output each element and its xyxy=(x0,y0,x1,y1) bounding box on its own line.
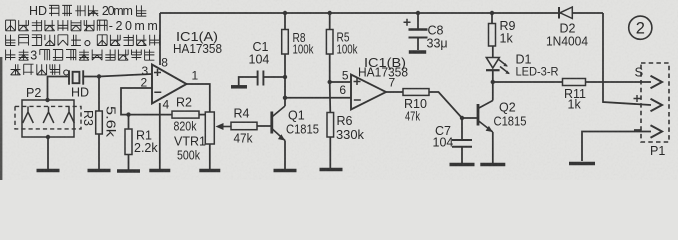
wire: pin 4 to ground xyxy=(159,103,161,169)
wire: base node to Q2 xyxy=(462,117,478,119)
resistor R6 330k xyxy=(327,82,365,168)
node: collector/pin6 junction xyxy=(283,96,287,100)
ground at Q1 emitter xyxy=(274,169,297,173)
capacitor C8 33u electrolytic xyxy=(404,13,448,51)
minus label xyxy=(634,129,641,131)
resistor R8 100k xyxy=(282,13,314,57)
node: feedback node xyxy=(126,112,130,116)
ground at Q2 emitter xyxy=(480,163,505,167)
wire: rail drop to P1 plus pin xyxy=(603,13,651,105)
wire: Q1 emitter to ground xyxy=(284,141,286,170)
wire: minus pin to ground xyxy=(582,132,651,162)
ground at P1 minus xyxy=(569,162,595,166)
connector P2 (3-pin socket) xyxy=(15,86,81,137)
paper scan texture xyxy=(0,0,1,1)
transistor Q1 C1815 (NPN) xyxy=(272,106,319,141)
node: rail junction at R8 xyxy=(283,11,287,15)
potentiometer VTR1 500k xyxy=(174,112,231,169)
node: P2 bottom xyxy=(46,135,50,139)
piezo transducer HD xyxy=(69,70,89,99)
capacitor C1 104 xyxy=(239,40,285,86)
wire: Q1 collector riser xyxy=(284,54,286,106)
resistor R1 2.2k xyxy=(125,115,158,170)
wire: signal to pin 6 xyxy=(285,97,351,99)
wire: output pin 1 to gain node xyxy=(187,84,210,113)
resistor R10 47k xyxy=(386,89,462,124)
ground at R6 xyxy=(320,168,343,172)
resistor R4 47k xyxy=(231,107,271,146)
ground at VTR1 xyxy=(199,169,220,173)
wire: HD to pin 3 node xyxy=(83,76,99,78)
resistor R3 5.6k xyxy=(81,77,118,170)
node: R5/R6 divider to pin 5 xyxy=(328,80,332,84)
node: D1 cathode / R11 tap xyxy=(491,80,495,84)
wire: pin 3 input xyxy=(99,74,152,77)
node: Q1 collector / C1 junction xyxy=(283,75,287,79)
node: rail junction at R5 xyxy=(328,11,332,15)
node: Q2 base node xyxy=(460,116,464,120)
ground at C1 xyxy=(231,85,247,89)
wire: pin 2 input xyxy=(121,88,172,115)
figure number (2) xyxy=(629,16,652,39)
ground at R1 xyxy=(117,169,140,173)
resistor R11 1k xyxy=(493,79,651,112)
ground at R3 xyxy=(88,169,111,173)
node: rail junction at R9 xyxy=(490,11,494,15)
ground at C8 xyxy=(409,50,426,54)
node: input node xyxy=(97,74,101,78)
resistor R2 820k xyxy=(172,96,210,134)
node: gain node junction xyxy=(208,112,212,116)
wire: P2 to ground xyxy=(47,137,49,169)
resistor R5 100k xyxy=(326,13,358,82)
wire: pin 8 to rail xyxy=(159,13,161,65)
wire: divider to pin 5 xyxy=(330,81,351,83)
op-amp IC1(A) HA17358 xyxy=(152,29,222,104)
capacitor C7 104 xyxy=(433,118,473,163)
ground at C7 xyxy=(450,163,475,167)
ground at pin 4 xyxy=(149,169,170,173)
transistor Q2 C1815 (NPN) xyxy=(478,101,527,133)
LED D1 LED-3-R xyxy=(486,53,559,79)
connector P1 (3-pin plug) xyxy=(641,63,669,158)
ground at P2 xyxy=(37,169,60,173)
wire: Q2 collector to D1 xyxy=(492,70,494,100)
plus label xyxy=(634,95,641,102)
note text (Chinese annotation, 5 lines) xyxy=(6,4,160,75)
resistor R9 1k xyxy=(489,13,516,58)
wire: P2 to HD xyxy=(48,77,70,101)
op-amp IC1(B) HA17358 xyxy=(351,56,408,110)
diode D2 1N4004 xyxy=(546,7,588,49)
node: rail junction at C8 xyxy=(416,11,420,15)
scan edge artifact xyxy=(0,57,2,180)
wire: Q2 emitter to ground xyxy=(492,132,494,163)
wire: V+ top rail xyxy=(160,12,603,14)
node: P2 top xyxy=(45,98,49,102)
